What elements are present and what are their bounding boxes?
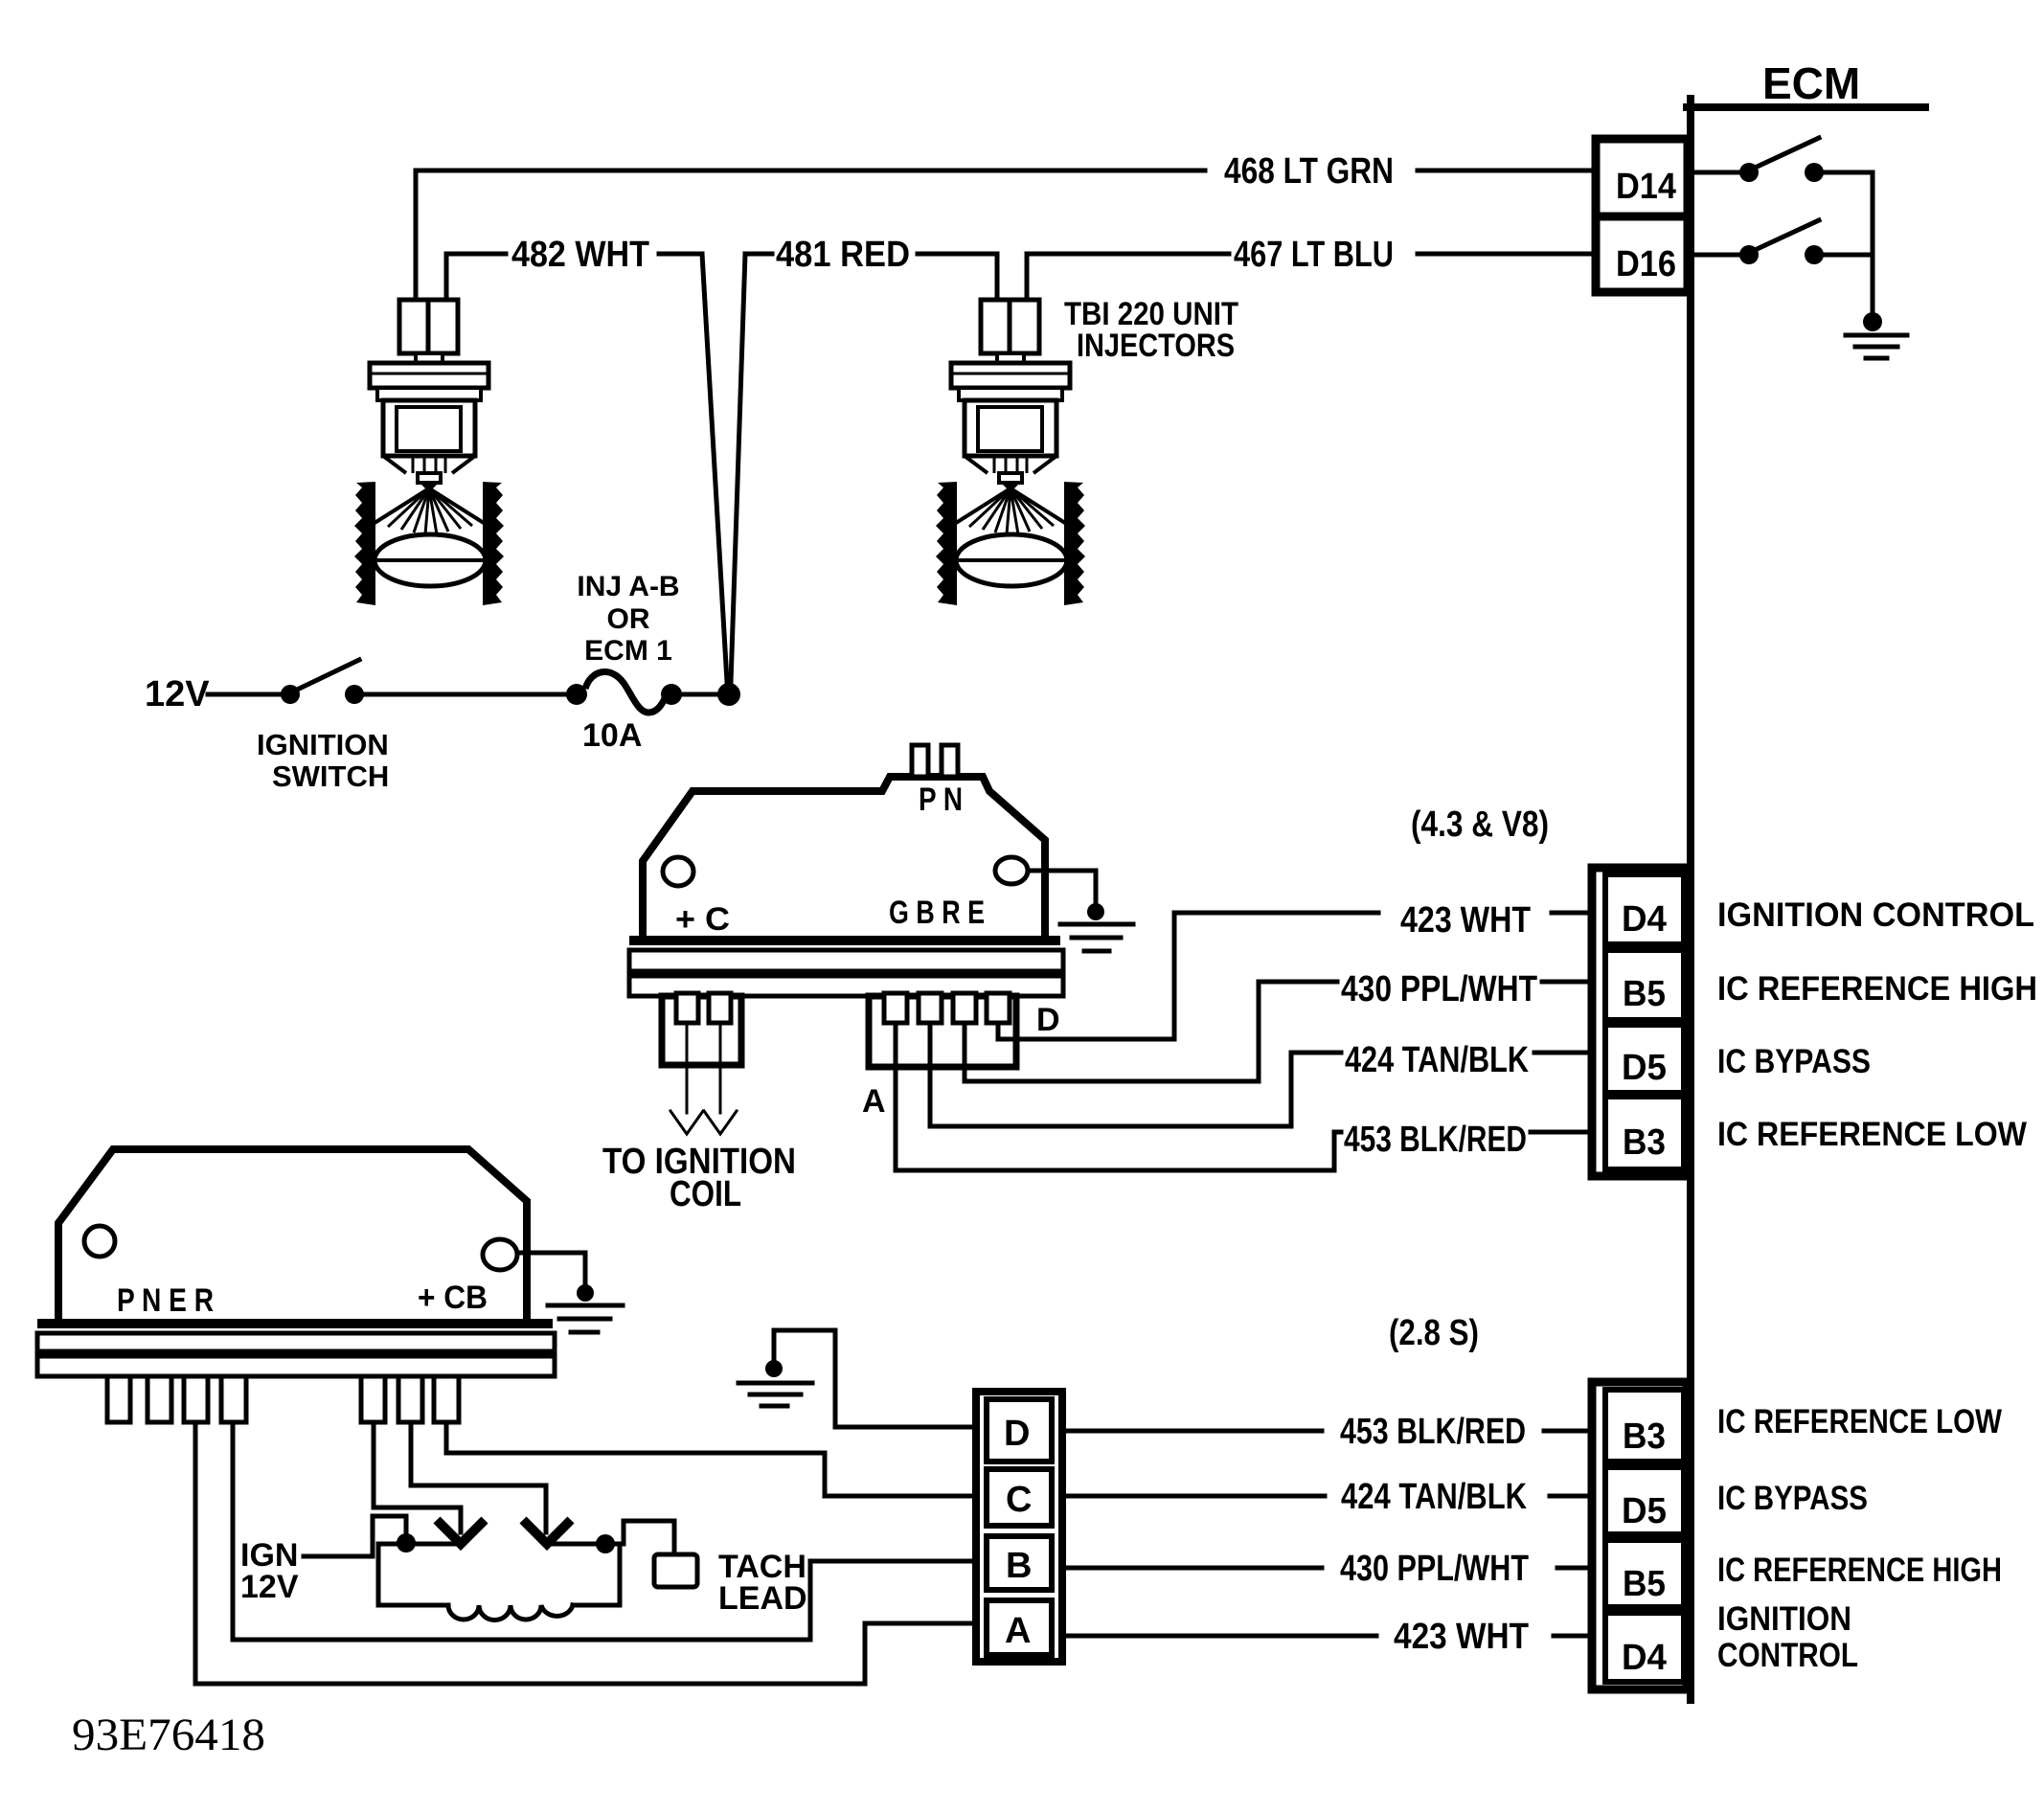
U2 pin L3 xyxy=(184,1376,208,1422)
pin D box xyxy=(987,1399,1052,1462)
svg-text:SWITCH: SWITCH xyxy=(272,759,389,793)
wire V right (481 RED down to fuse junction) xyxy=(731,254,745,682)
wire 467 LT BLU stub from injector B xyxy=(1027,254,1229,300)
U1 mounting hole right xyxy=(995,857,1028,884)
svg-text:ECM: ECM xyxy=(1762,58,1860,108)
ground (U2 case) xyxy=(577,1284,594,1302)
arrow to ignition coil 2 xyxy=(704,1111,737,1134)
ECM main vertical line xyxy=(1687,99,1694,1700)
ECM connector shell (4.3 and V8) xyxy=(1592,868,1687,1176)
wire 430 PPL/WHT from pin C xyxy=(965,982,1337,1081)
pin D5 box xyxy=(1605,1025,1684,1093)
svg-text:B3: B3 xyxy=(1623,1416,1666,1457)
U2 mounting hole left xyxy=(84,1226,115,1257)
svg-text:OR: OR xyxy=(607,603,650,635)
wire 423 WHT to D4 xyxy=(1554,1634,1596,1639)
pin C box xyxy=(987,1469,1052,1526)
svg-text:A: A xyxy=(862,1083,886,1120)
wire 423 WHT to D4 xyxy=(1552,911,1596,916)
ECM connector shell (2.8 S) xyxy=(1592,1382,1687,1689)
wire 467 LT BLU segment right to D16 xyxy=(1418,252,1596,257)
U1 base plate 1 xyxy=(629,936,1060,945)
svg-text:INJECTORS: INJECTORS xyxy=(1077,328,1235,364)
svg-text:482 WHT: 482 WHT xyxy=(511,235,649,275)
svg-text:B: B xyxy=(1006,1546,1032,1586)
switch at D14 xyxy=(1694,170,1739,175)
wire 482 WHT dash right of label xyxy=(659,252,702,257)
U2 base plate 3 xyxy=(37,1356,555,1376)
U1 pin C2 xyxy=(709,993,731,1023)
svg-text:IGNITION: IGNITION xyxy=(257,728,389,761)
svg-text:IC BYPASS: IC BYPASS xyxy=(1717,1043,1871,1080)
U1 base plate 3 xyxy=(629,976,1063,996)
wire 468 LT GRN segment right to D14 xyxy=(1418,169,1596,173)
ECM top edge xyxy=(1687,103,1925,111)
wire 468 LT GRN segment left xyxy=(416,170,1205,300)
svg-text:INJ A-B: INJ A-B xyxy=(577,571,679,602)
wire A to 423 WHT xyxy=(1062,1634,1376,1639)
wire points bus left xyxy=(378,1542,459,1547)
wire 424 TAN/BLK to D5 xyxy=(1534,1051,1596,1055)
wire U2 pin L3 to connector A xyxy=(195,1422,976,1684)
ignition module U2 (2.8 S) body xyxy=(58,1149,527,1325)
pin B5 box xyxy=(1605,1540,1684,1607)
svg-text:IC REFERENCE HIGH: IC REFERENCE HIGH xyxy=(1717,970,2037,1008)
pin D4 box xyxy=(1605,1613,1684,1682)
wire IGN 12V feed xyxy=(304,1516,406,1556)
node points bus left xyxy=(397,1533,416,1552)
distributor points arrow 2 xyxy=(523,1520,571,1544)
svg-text:LEAD: LEAD xyxy=(718,1580,807,1617)
wire 424 TAN/BLK from pin B xyxy=(930,1023,1341,1126)
pin B3 box xyxy=(1605,1097,1684,1169)
U1 left pin shell xyxy=(662,996,741,1065)
svg-text:430 PPL/WHT: 430 PPL/WHT xyxy=(1341,969,1537,1009)
svg-text:COIL: COIL xyxy=(670,1174,741,1214)
pin B5 box xyxy=(1605,950,1684,1020)
U1 top pin 2 xyxy=(942,745,958,777)
svg-text:424 TAN/BLK: 424 TAN/BLK xyxy=(1345,1040,1529,1080)
svg-text:430 PPL/WHT: 430 PPL/WHT xyxy=(1340,1549,1529,1589)
wire D to 453 BLK/RED xyxy=(1062,1429,1322,1434)
U2 pin R1 xyxy=(361,1376,385,1422)
wire coil lead 1 xyxy=(686,1023,689,1113)
wire U2 ground xyxy=(517,1253,585,1287)
junction node (injector feed) xyxy=(717,683,740,706)
pin B box xyxy=(987,1536,1052,1590)
switch at D16 xyxy=(1694,253,1739,258)
wire C to 424 TAN/BLK xyxy=(1062,1494,1325,1499)
svg-text:B5: B5 xyxy=(1623,974,1666,1014)
svg-text:ECM 1: ECM 1 xyxy=(584,635,672,667)
pin D4 box xyxy=(1605,874,1684,944)
U2 pin R3 xyxy=(434,1376,459,1422)
wire 453 BLK/RED to B3 xyxy=(1544,1429,1596,1434)
U1 pin A xyxy=(884,993,907,1023)
wire 481 RED dash left of label xyxy=(745,252,772,257)
svg-text:IGNITION: IGNITION xyxy=(1717,1600,1851,1638)
U2 pin L4 xyxy=(221,1376,246,1422)
U1 pin C xyxy=(953,993,976,1023)
ground (U1 case) xyxy=(1087,903,1104,920)
svg-text:(2.8 S): (2.8 S) xyxy=(1389,1313,1479,1353)
svg-text:IGNITION CONTROL: IGNITION CONTROL xyxy=(1717,896,2034,934)
svg-text:467 LT BLU: 467 LT BLU xyxy=(1234,235,1394,275)
U1 pin D xyxy=(987,993,1010,1023)
wire switches to ground xyxy=(1871,172,1875,314)
node points bus right xyxy=(596,1534,615,1553)
U2 base plate 1 xyxy=(37,1319,553,1328)
wire 424 TAN/BLK to D5 xyxy=(1550,1494,1596,1499)
connector D14/D16 block xyxy=(1596,139,1688,292)
wire points bus right xyxy=(547,1542,624,1547)
pickup coil loop xyxy=(378,1544,448,1605)
U1 pin C1 xyxy=(676,993,698,1023)
svg-text:C: C xyxy=(1006,1480,1032,1520)
U1 pin B xyxy=(919,993,942,1023)
svg-text:D16: D16 xyxy=(1616,244,1676,284)
svg-text:D4: D4 xyxy=(1622,1638,1667,1678)
svg-text:481 RED: 481 RED xyxy=(776,235,910,275)
connector DCBA shell xyxy=(976,1392,1062,1662)
svg-text:D: D xyxy=(1036,1002,1060,1038)
svg-text:468 LT GRN: 468 LT GRN xyxy=(1224,151,1394,192)
U1 base plate 2 xyxy=(629,950,1063,971)
svg-text:12V: 12V xyxy=(240,1569,299,1605)
svg-text:424 TAN/BLK: 424 TAN/BLK xyxy=(1341,1477,1527,1517)
wire 430 PPL/WHT to B5 xyxy=(1557,1566,1596,1571)
svg-text:IC BYPASS: IC BYPASS xyxy=(1717,1480,1868,1517)
U1 right pin shell xyxy=(869,996,1016,1067)
svg-text:CONTROL: CONTROL xyxy=(1717,1637,1858,1674)
injector A (left TBI injector) xyxy=(354,300,504,605)
wire fuse to junction xyxy=(682,692,720,697)
wire 430 PPL/WHT to B5 xyxy=(1542,980,1596,985)
injector B (right TBI injector) xyxy=(936,300,1085,605)
svg-text:IC REFERENCE HIGH: IC REFERENCE HIGH xyxy=(1717,1552,2002,1589)
U2 mounting hole right xyxy=(483,1239,517,1270)
svg-text:93E76418: 93E76418 xyxy=(72,1710,265,1760)
wire V left (482 WHT down to fuse junction) xyxy=(702,254,727,682)
U2 base plate 2 xyxy=(37,1333,555,1351)
wire to tach terminal xyxy=(624,1521,674,1554)
svg-text:P N: P N xyxy=(919,782,963,818)
wire U2 pin R1 to points 1 xyxy=(374,1422,461,1532)
wire B to 430 PPL/WHT xyxy=(1062,1566,1322,1571)
wire U1 ground xyxy=(1028,871,1096,906)
wire U2 pin R3 to connector C xyxy=(446,1422,976,1496)
pin D5 box xyxy=(1605,1467,1684,1534)
svg-text:423 WHT: 423 WHT xyxy=(1394,1617,1529,1657)
wire coil lead 2 xyxy=(719,1023,722,1113)
svg-text:D5: D5 xyxy=(1622,1048,1667,1088)
wire 482 WHT stub to injector A xyxy=(446,254,506,300)
svg-text:12V: 12V xyxy=(145,674,210,714)
svg-text:D: D xyxy=(1004,1414,1030,1454)
svg-text:10A: 10A xyxy=(582,717,642,754)
ignition module U1 (4.3 and V8) body xyxy=(643,777,1045,939)
wire switch to fuse xyxy=(364,692,569,697)
wire 12V to switch xyxy=(208,692,286,697)
wire U2 pin R2 to points 2 xyxy=(411,1422,546,1532)
U1 top pin 1 xyxy=(912,745,928,777)
svg-text:453 BLK/RED: 453 BLK/RED xyxy=(1344,1120,1527,1160)
arrow to ignition coil 1 xyxy=(670,1111,703,1134)
svg-text:G B R E: G B R E xyxy=(889,895,985,931)
wire 423 WHT from pin D xyxy=(998,913,1378,1039)
U2 pin R2 xyxy=(398,1376,422,1422)
ground (distributor 2.8) xyxy=(765,1360,783,1377)
svg-text:B5: B5 xyxy=(1623,1564,1666,1604)
svg-text:P N E R: P N E R xyxy=(117,1282,214,1319)
svg-text:A: A xyxy=(1005,1611,1031,1651)
svg-text:+ CB: + CB xyxy=(418,1280,488,1316)
ignition switch xyxy=(281,685,300,704)
svg-text:(4.3 & V8): (4.3 & V8) xyxy=(1411,805,1549,845)
svg-text:+ C: + C xyxy=(675,901,730,938)
U1 mounting hole left xyxy=(663,857,693,886)
wire 481 RED to injector B xyxy=(918,254,997,300)
wire U2 pin L4 to connector B xyxy=(233,1422,976,1640)
svg-text:B3: B3 xyxy=(1623,1122,1666,1163)
wire connector D to ground xyxy=(774,1330,976,1427)
U2 pin L1 xyxy=(107,1376,130,1422)
svg-text:453 BLK/RED: 453 BLK/RED xyxy=(1340,1412,1526,1452)
wire 453 BLK/RED to B3 xyxy=(1531,1130,1596,1135)
ground (ECM internal) xyxy=(1863,312,1882,331)
svg-text:IC REFERENCE LOW: IC REFERENCE LOW xyxy=(1717,1403,2002,1440)
U2 pin L2 xyxy=(148,1376,171,1422)
svg-text:D5: D5 xyxy=(1622,1491,1667,1531)
tach terminal box xyxy=(654,1554,697,1587)
svg-text:D14: D14 xyxy=(1616,167,1676,207)
svg-text:D4: D4 xyxy=(1622,899,1667,940)
pin A box xyxy=(987,1600,1052,1655)
fuse 10A xyxy=(566,684,587,705)
distributor points arrow 1 xyxy=(437,1520,485,1544)
svg-text:423 WHT: 423 WHT xyxy=(1400,900,1531,940)
svg-text:IC REFERENCE LOW: IC REFERENCE LOW xyxy=(1717,1116,2027,1153)
wire 453 BLK/RED from pin A xyxy=(896,1023,1341,1170)
pin B3 box xyxy=(1605,1390,1684,1462)
